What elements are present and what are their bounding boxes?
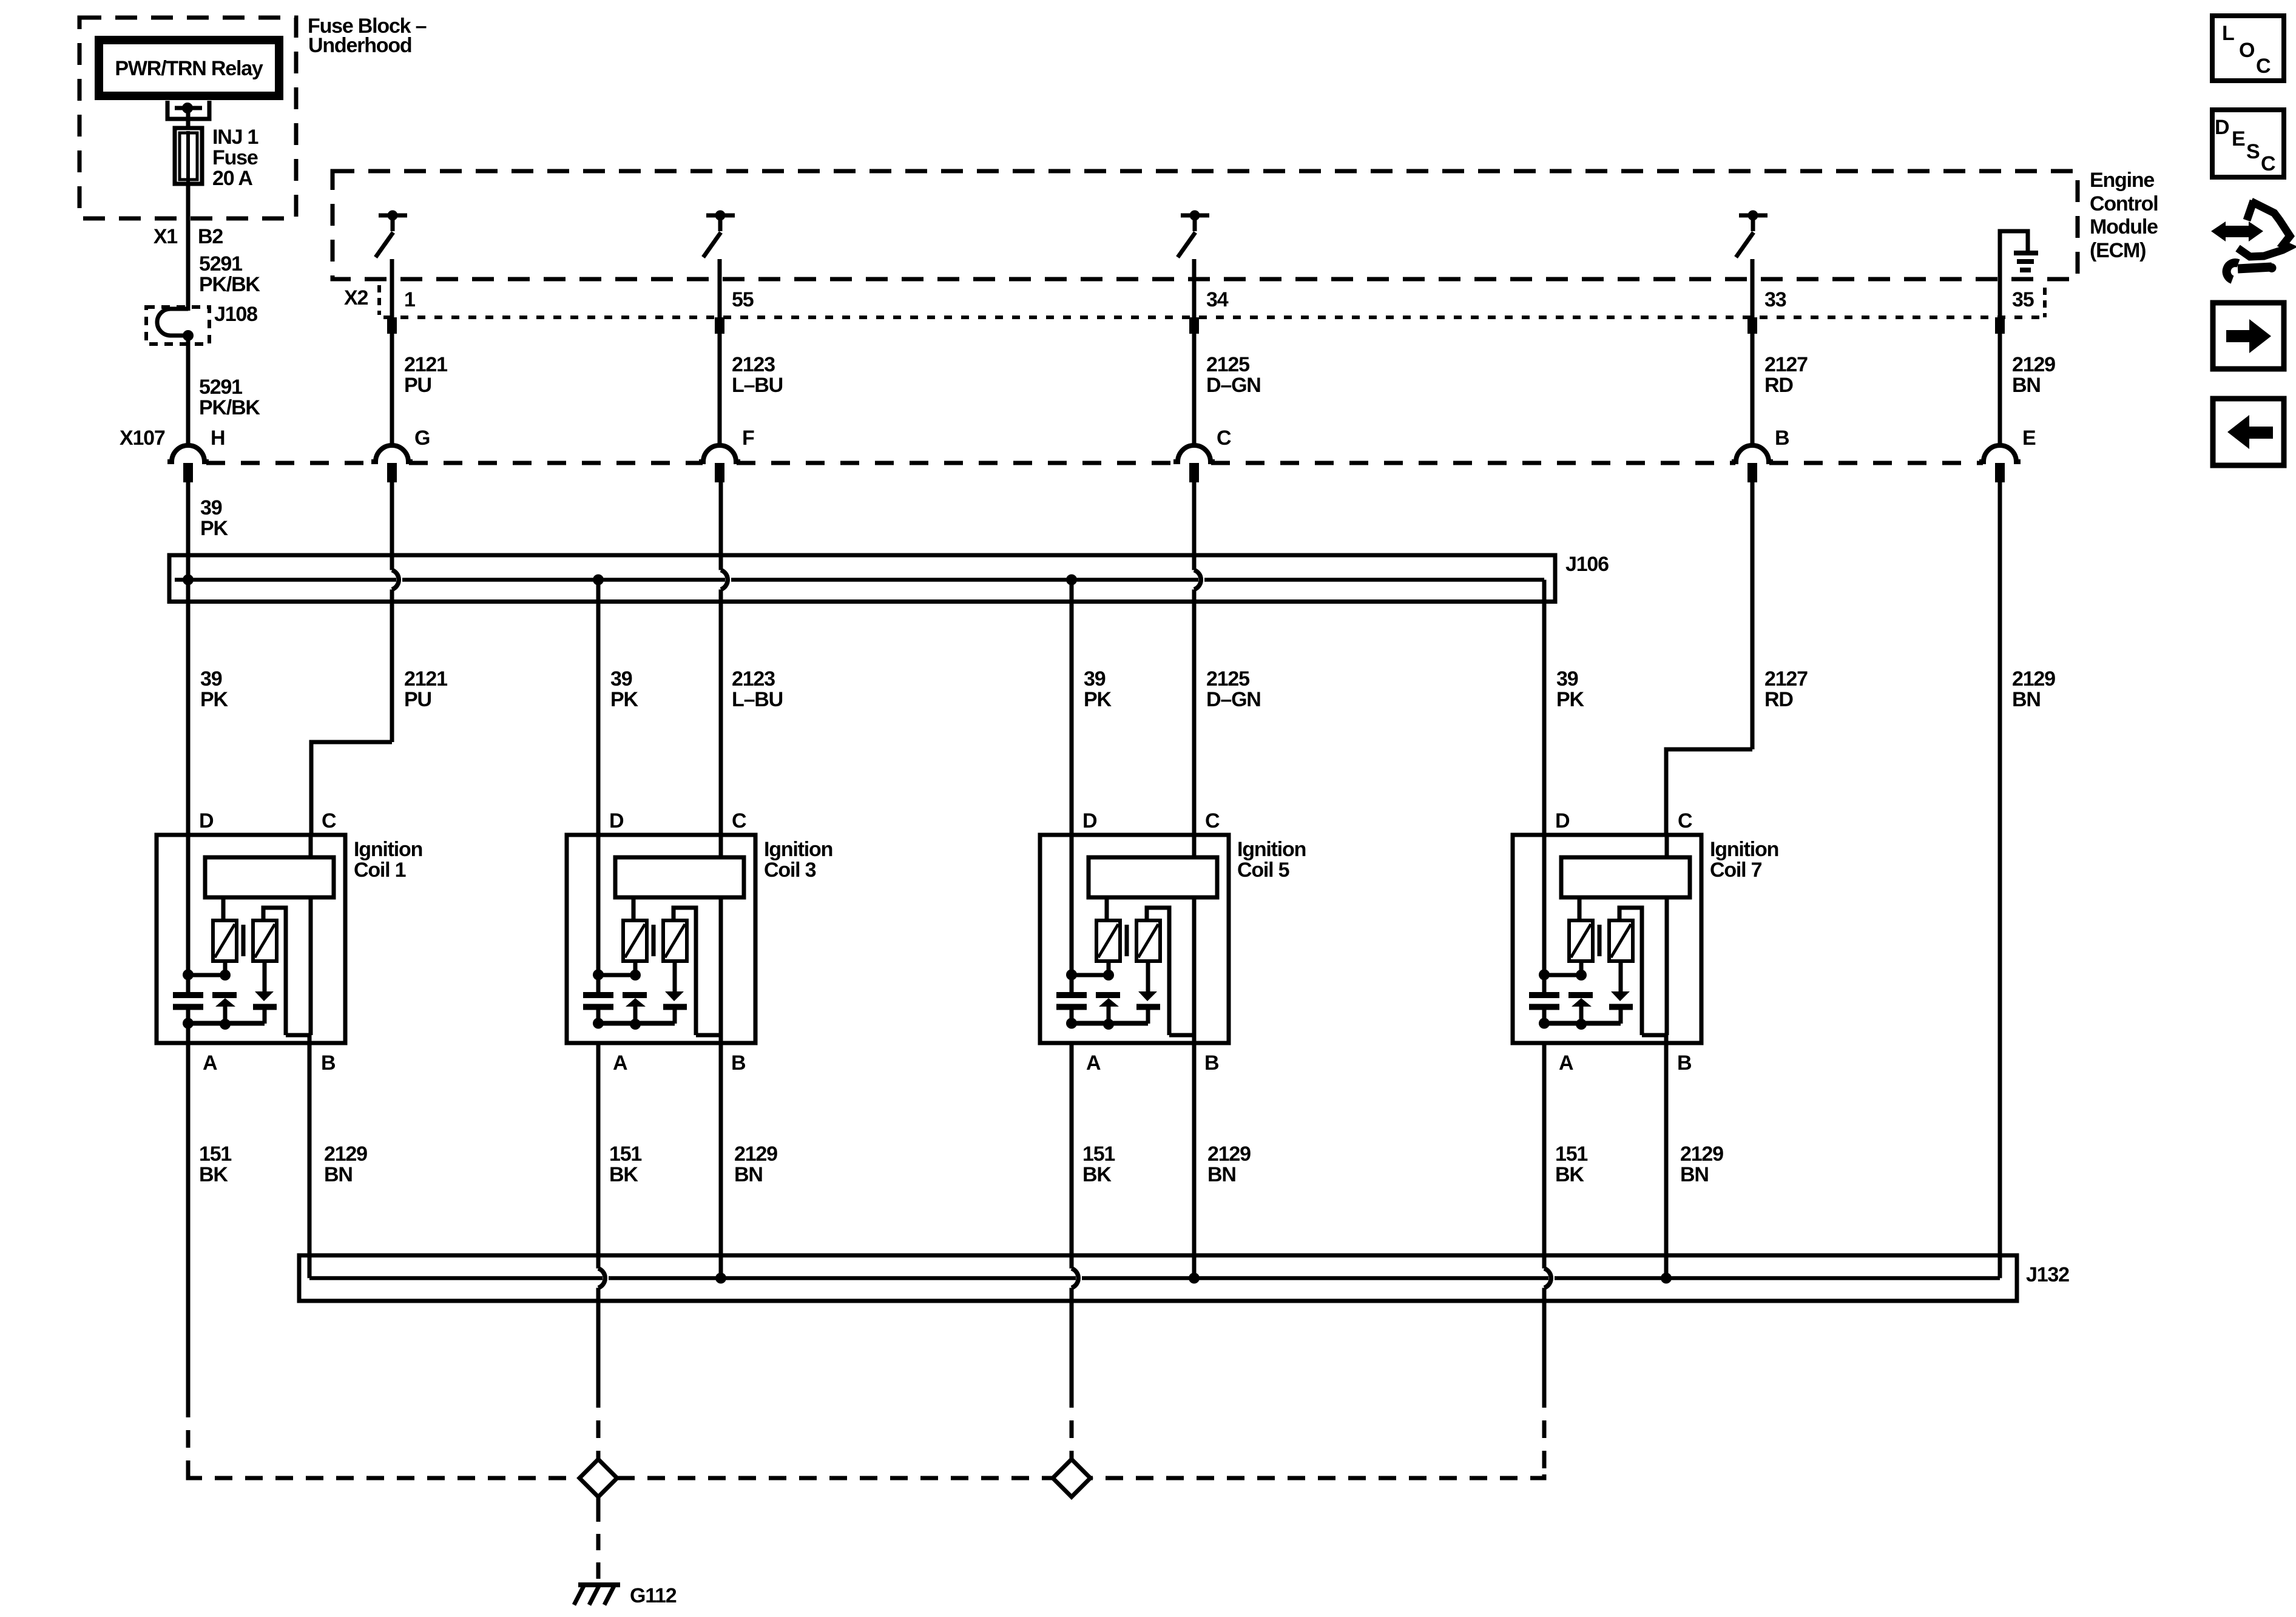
- ECM driver switch Q3 (pin 34): [1178, 211, 1209, 280]
- svg-text:B: B: [1204, 1052, 1219, 1075]
- svg-text:BN: BN: [1680, 1163, 1709, 1186]
- X107 pin F label: [742, 427, 754, 450]
- svg-text:151: 151: [199, 1143, 231, 1166]
- svg-text:Control: Control: [2090, 192, 2158, 215]
- wire 2127 RD jog to coil7 C: [1666, 749, 1752, 835]
- label J106: [1565, 553, 1609, 576]
- wire hop over J106 at x=1188: [721, 570, 728, 590]
- wire relay to fuse: [186, 110, 191, 130]
- label Ignition Coil 1: [354, 838, 422, 882]
- icon back arrow box: [2213, 399, 2284, 465]
- wire diamond S1 to G112 stem: [596, 1497, 601, 1581]
- wire from X2 pin 35: [1998, 279, 2002, 447]
- coil 1 pin D label: [199, 809, 214, 832]
- coil 7 pin B label: [1677, 1052, 1692, 1075]
- svg-text:B: B: [321, 1052, 336, 1075]
- svg-text:S: S: [2246, 140, 2260, 163]
- svg-text:2129: 2129: [734, 1143, 777, 1166]
- wire from X2 pin 1: [390, 279, 394, 447]
- svg-text:PK/BK: PK/BK: [199, 396, 260, 419]
- wire 151 BK coil7 A down: [1542, 1043, 1547, 1390]
- svg-text:2125: 2125: [1206, 353, 1249, 376]
- label G112: [630, 1584, 677, 1607]
- svg-text:A: A: [1086, 1052, 1101, 1075]
- label wire 2127 RD row2 x=2908: [1764, 667, 1808, 711]
- svg-text:A: A: [1559, 1052, 1573, 1075]
- svg-text:2129: 2129: [1207, 1143, 1251, 1166]
- wire fuse to X1 pin B2: [186, 184, 191, 311]
- label X1 pin B2: [154, 225, 223, 248]
- label wire 5291 PK/BK upper: [199, 252, 260, 296]
- coil 1 pin C label: [322, 809, 336, 832]
- svg-text:Ignition: Ignition: [764, 838, 832, 861]
- ignition coil T7: Ignition Coil 7: [1513, 835, 1701, 1043]
- wire 39 PK J106 to coil5 D: [1070, 580, 1074, 836]
- wire 151 BK coil5 A dashed: [1070, 1390, 1074, 1459]
- splice J106 outline: [169, 555, 1555, 602]
- label wire 39 PK row2 x=1006: [610, 667, 638, 711]
- label wire 2129 BN row2 x=3316: [2012, 667, 2055, 711]
- ignition coil T5: Ignition Coil 5: [1040, 835, 1229, 1043]
- X107 pin H terminal arc: [167, 445, 209, 462]
- label Engine Control Module (ECM): [2090, 169, 2158, 262]
- svg-text:151: 151: [1555, 1143, 1587, 1166]
- wire hop over J132 at x=1766: [1072, 1269, 1078, 1288]
- coil 5 pin B label: [1204, 1052, 1219, 1075]
- svg-text:Ignition: Ignition: [354, 838, 422, 861]
- svg-text:(ECM): (ECM): [2090, 239, 2146, 262]
- wire hop over J132 at x=986: [598, 1269, 605, 1288]
- label Ignition Coil 7: [1710, 838, 1778, 882]
- coil 1 pin B label: [321, 1052, 336, 1075]
- svg-text:Module: Module: [2090, 215, 2158, 238]
- svg-text:C: C: [322, 809, 336, 832]
- label wire 39 PK row2 x=2565: [1556, 667, 1584, 711]
- wire 2127 RD from X107 B: [1751, 482, 1755, 749]
- label wire 2121: [404, 353, 447, 397]
- svg-text:D: D: [199, 809, 214, 832]
- fuse block - underhood dashed box: [79, 18, 296, 218]
- ECM driver switch Q2 (pin 55): [703, 211, 735, 280]
- J106 splice dot 39PK coil3: [593, 575, 604, 586]
- svg-text:B: B: [731, 1052, 746, 1075]
- svg-text:J108: J108: [214, 303, 257, 326]
- fuse holder terminal cup: [167, 101, 209, 119]
- svg-text:C: C: [1217, 427, 1231, 450]
- svg-text:151: 151: [609, 1143, 641, 1166]
- X107 pin C terminal arc: [1173, 445, 1215, 462]
- wire 2121 PU through J106: [390, 482, 394, 742]
- X2 pin 55 terminal bar: [715, 317, 724, 334]
- svg-text:20 A: 20 A: [212, 167, 252, 190]
- label wire 5291 PK/BK lower: [199, 376, 260, 419]
- fuse F: INJ 1 Fuse 20 A: [175, 128, 202, 184]
- label INJ 1 Fuse 20 A: [212, 126, 258, 190]
- svg-text:E: E: [2232, 127, 2245, 150]
- svg-text:39: 39: [200, 667, 222, 690]
- svg-text:Ignition: Ignition: [1237, 838, 1306, 861]
- svg-text:Coil 7: Coil 7: [1710, 859, 1762, 882]
- svg-text:D–GN: D–GN: [1206, 688, 1261, 711]
- J106 splice dot H/39PK: [183, 575, 194, 586]
- svg-text:BN: BN: [2012, 688, 2041, 711]
- wire 2125 D-GN through J106 to coil5 C: [1192, 482, 1197, 835]
- svg-text:D: D: [2215, 116, 2229, 139]
- svg-text:2123: 2123: [732, 353, 775, 376]
- svg-text:34: 34: [1206, 288, 1229, 311]
- wire 151 BK coil1 A down: [186, 1024, 191, 1400]
- J132 splice dot coil7 B: [1661, 1273, 1672, 1284]
- svg-text:C: C: [2261, 152, 2275, 175]
- coil 7 pin C label: [1678, 809, 1692, 832]
- X2 pin 35 terminal bar: [1995, 317, 2005, 334]
- svg-text:Engine: Engine: [2090, 169, 2154, 192]
- ground G112 symbol: [574, 1585, 620, 1605]
- svg-text:Coil 1: Coil 1: [354, 859, 406, 882]
- wire 2121 PU jog to coil1 C: [311, 742, 392, 835]
- label wire 2125 D-GN row2 x=1988: [1206, 667, 1261, 711]
- X107 pin C label: [1217, 427, 1231, 450]
- ECM internal ground: [2000, 231, 2038, 279]
- wire 2129 BN coil3 B to J132: [719, 1035, 723, 1278]
- coil 3 pin C label: [732, 809, 746, 832]
- label wire 2123 L-BU row2 x=1206: [732, 667, 783, 711]
- svg-text:BK: BK: [1555, 1163, 1584, 1186]
- label wire 2127: [1764, 353, 1808, 397]
- svg-text:BN: BN: [2012, 374, 2041, 397]
- label Fuse Block - Underhood: [308, 15, 427, 57]
- wire hop over J106 at x=646: [392, 570, 399, 590]
- ECM dashed box: [333, 171, 2078, 279]
- wire from X2 pin 34: [1192, 279, 1197, 447]
- X2 pin 1 terminal bar: [387, 317, 397, 334]
- X2 pin 33 label: [1764, 288, 1786, 311]
- svg-text:5291: 5291: [199, 376, 242, 399]
- svg-text:5291: 5291: [199, 252, 242, 275]
- X107 pin C terminal bar: [1189, 463, 1199, 482]
- J132 splice dot coil3 B: [715, 1273, 726, 1284]
- coil 5 pin D label: [1082, 809, 1097, 832]
- X2 pin 1 label: [404, 288, 415, 311]
- ignition coil T3: Ignition Coil 3: [567, 835, 755, 1043]
- svg-text:E: E: [2022, 427, 2036, 450]
- icon DESC box: [2212, 110, 2284, 177]
- svg-text:PK: PK: [200, 688, 228, 711]
- label wire 2129 BN coil 3: [734, 1143, 777, 1186]
- svg-text:D: D: [609, 809, 624, 832]
- inline connector J108 box: [146, 303, 257, 344]
- label Ignition Coil 3: [764, 838, 832, 882]
- label wire 2123: [732, 353, 783, 397]
- svg-text:BK: BK: [1082, 1163, 1112, 1186]
- svg-text:BN: BN: [1207, 1163, 1236, 1186]
- svg-text:PU: PU: [404, 374, 431, 397]
- label wire 39 PK below H: [200, 496, 228, 540]
- svg-text:X2: X2: [344, 286, 368, 309]
- wire from X2 pin 33: [1751, 279, 1755, 447]
- svg-text:2127: 2127: [1764, 353, 1808, 376]
- label wire 151 BK coil 7: [1555, 1143, 1587, 1186]
- wire hop over J132 at x=2545: [1544, 1269, 1551, 1288]
- svg-text:2121: 2121: [404, 353, 447, 376]
- label wire 39 PK row2 x=1786: [1084, 667, 1112, 711]
- X107 pin E terminal arc: [1979, 445, 2021, 462]
- svg-text:C: C: [1205, 809, 1220, 832]
- label X2: [344, 286, 368, 309]
- svg-text:PK: PK: [200, 517, 228, 540]
- J132 splice dot coil5 B: [1189, 1273, 1200, 1284]
- svg-text:J106: J106: [1565, 553, 1609, 576]
- coil 5 pin A label: [1086, 1052, 1101, 1075]
- X107 pin H terminal bar: [183, 463, 193, 482]
- label wire 2121 PU row2 x=666: [404, 667, 447, 711]
- label wire 2129 BN coil 5: [1207, 1143, 1251, 1186]
- svg-text:O: O: [2239, 39, 2255, 62]
- svg-text:PWR/TRN Relay: PWR/TRN Relay: [115, 57, 263, 80]
- svg-text:39: 39: [1556, 667, 1578, 690]
- svg-text:X107: X107: [120, 427, 165, 450]
- coil 7 pin A label: [1559, 1052, 1573, 1075]
- wire 151 BK coil5 A down: [1070, 1043, 1074, 1390]
- svg-text:C: C: [2256, 55, 2271, 78]
- svg-text:D: D: [1555, 809, 1570, 832]
- J106 splice dot 39PK coil5: [1066, 575, 1077, 586]
- icon wrench/hand: [2211, 201, 2290, 280]
- svg-text:PK/BK: PK/BK: [199, 273, 260, 296]
- X2 pin 55 label: [732, 288, 754, 311]
- svg-text:L–BU: L–BU: [732, 374, 783, 397]
- coil 5 pin C label: [1205, 809, 1220, 832]
- svg-text:INJ 1: INJ 1: [212, 126, 258, 149]
- svg-text:PK: PK: [1556, 688, 1584, 711]
- wire 2129 BN coil5 B to J132: [1192, 1035, 1197, 1278]
- svg-text:39: 39: [610, 667, 632, 690]
- X107 pin G terminal arc: [371, 445, 413, 462]
- svg-text:2127: 2127: [1764, 667, 1808, 690]
- splice J106 middle wire: [175, 578, 1544, 582]
- svg-text:2129: 2129: [2012, 353, 2055, 376]
- svg-text:2129: 2129: [2012, 667, 2055, 690]
- ECM driver switch Q4 (pin 33): [1736, 211, 1768, 280]
- label Ignition Coil 5: [1237, 838, 1306, 882]
- X107 pin E terminal bar: [1995, 463, 2005, 482]
- wire from X2 pin 55: [718, 279, 722, 447]
- coil 7 pin D label: [1555, 809, 1570, 832]
- coil 3 pin B label: [731, 1052, 746, 1075]
- label X107: [120, 427, 165, 450]
- svg-text:Coil 5: Coil 5: [1237, 859, 1289, 882]
- X2 pin 35 label: [2012, 288, 2034, 311]
- label wire 2129: [2012, 353, 2055, 397]
- wire 39 PK J106 end to coil7 D: [1542, 580, 1547, 836]
- label wire 2129 BN coil 1: [324, 1143, 367, 1186]
- coil 3 pin A label: [613, 1052, 627, 1075]
- svg-text:151: 151: [1082, 1143, 1115, 1166]
- icon forward arrow box: [2213, 303, 2284, 369]
- svg-text:39: 39: [1084, 667, 1106, 690]
- svg-text:BN: BN: [734, 1163, 763, 1186]
- svg-text:2123: 2123: [732, 667, 775, 690]
- ground bus dashed segment 1: [188, 1474, 579, 1478]
- wire 2129 BN from X107 E to J132: [1998, 482, 2002, 1278]
- connector X107 dashed line: [206, 461, 1983, 465]
- svg-text:BN: BN: [324, 1163, 353, 1186]
- wire 5291 J108 to X107 pin H: [186, 334, 191, 447]
- svg-text:BK: BK: [199, 1163, 228, 1186]
- coil 3 pin D label: [609, 809, 624, 832]
- icon LOC box: [2212, 16, 2284, 81]
- label wire 2129 BN coil 7: [1680, 1143, 1723, 1186]
- svg-text:2129: 2129: [324, 1143, 367, 1166]
- svg-text:Coil 3: Coil 3: [764, 859, 816, 882]
- svg-text:55: 55: [732, 288, 754, 311]
- ground bus dashed segment 2: [617, 1476, 1053, 1480]
- svg-text:RD: RD: [1764, 374, 1793, 397]
- svg-text:X1: X1: [154, 225, 177, 248]
- svg-text:Fuse: Fuse: [212, 146, 258, 169]
- svg-text:C: C: [1678, 809, 1692, 832]
- svg-text:A: A: [613, 1052, 627, 1075]
- ECM driver switch Q1 (pin 1): [376, 211, 407, 280]
- wire 151 BK coil1 A dashed: [186, 1400, 191, 1478]
- svg-text:F: F: [742, 427, 754, 450]
- svg-text:A: A: [203, 1052, 217, 1075]
- splice J132 outline: [299, 1255, 2017, 1301]
- wire hop over J106 at x=1968: [1194, 570, 1201, 590]
- X107 pin G terminal bar: [387, 463, 397, 482]
- svg-text:D–GN: D–GN: [1206, 374, 1261, 397]
- splice diamond S1: [579, 1459, 617, 1497]
- svg-text:G: G: [414, 427, 430, 450]
- svg-text:D: D: [1082, 809, 1097, 832]
- svg-text:PK: PK: [1084, 688, 1112, 711]
- X107 pin E label: [2022, 427, 2036, 450]
- svg-text:1: 1: [404, 288, 415, 311]
- wire 151 BK coil3 A down: [596, 1043, 601, 1390]
- ground bus dashed segment 3: [1090, 1474, 1544, 1478]
- wire 151 BK coil3 A dashed: [596, 1390, 601, 1459]
- svg-text:2121: 2121: [404, 667, 447, 690]
- label J132: [2026, 1263, 2069, 1286]
- svg-text:G112: G112: [630, 1584, 677, 1607]
- connector X2 dotted line: [383, 316, 2044, 319]
- relay K: PWR/TRN Relay box: [99, 40, 279, 96]
- svg-text:PK: PK: [610, 688, 638, 711]
- svg-text:C: C: [732, 809, 746, 832]
- svg-text:RD: RD: [1764, 688, 1793, 711]
- splice J132 middle wire: [309, 1276, 2000, 1280]
- label wire 151 BK coil 5: [1082, 1143, 1115, 1186]
- svg-text:33: 33: [1764, 288, 1786, 311]
- svg-text:Ignition: Ignition: [1710, 838, 1778, 861]
- svg-text:L–BU: L–BU: [732, 688, 783, 711]
- connector X2 separators: [379, 285, 2045, 317]
- X107 pin G label: [414, 427, 430, 450]
- svg-text:Underhood: Underhood: [308, 34, 412, 57]
- connector J108 symbol: [157, 309, 194, 341]
- X107 pin F terminal bar: [715, 463, 724, 482]
- svg-text:B2: B2: [198, 225, 223, 248]
- wire 39 PK H to coil1 D: [186, 482, 191, 835]
- label wire 151 BK coil 1: [199, 1143, 231, 1186]
- wire 2123 L-BU through J106 to coil3 C: [719, 482, 723, 835]
- ignition coil T1: Ignition Coil 1: [157, 835, 345, 1043]
- splice diamond S2: [1053, 1459, 1090, 1497]
- X2 pin 34 label: [1206, 288, 1229, 311]
- svg-text:2129: 2129: [1680, 1143, 1723, 1166]
- label wire 2125: [1206, 353, 1261, 397]
- X107 pin H label: [211, 427, 225, 450]
- svg-text:H: H: [211, 427, 225, 450]
- svg-text:L: L: [2222, 22, 2234, 45]
- label wire 39 PK row2 x=330: [200, 667, 228, 711]
- svg-text:2125: 2125: [1206, 667, 1249, 690]
- wire 2129 BN coil7 B to J132: [1664, 1035, 1669, 1278]
- wire 39 PK J106 to coil3 D: [596, 580, 601, 836]
- coil 1 pin A label: [203, 1052, 217, 1075]
- svg-text:B: B: [1775, 427, 1789, 450]
- svg-text:35: 35: [2012, 288, 2034, 311]
- wire 2129 BN coil1 B to J132: [308, 1035, 312, 1278]
- X107 pin B terminal arc: [1732, 445, 1773, 462]
- svg-text:B: B: [1677, 1052, 1692, 1075]
- wire 151 BK coil7 A dashed: [1542, 1390, 1547, 1478]
- X2 pin 33 terminal bar: [1747, 317, 1757, 334]
- X107 pin F terminal arc: [699, 445, 740, 462]
- svg-text:J132: J132: [2026, 1263, 2069, 1286]
- svg-text:PU: PU: [404, 688, 431, 711]
- X107 pin B label: [1775, 427, 1789, 450]
- X107 pin B terminal bar: [1747, 463, 1757, 482]
- X2 pin 34 terminal bar: [1189, 317, 1199, 334]
- svg-text:BK: BK: [609, 1163, 638, 1186]
- label wire 151 BK coil 3: [609, 1143, 641, 1186]
- svg-text:39: 39: [200, 496, 222, 519]
